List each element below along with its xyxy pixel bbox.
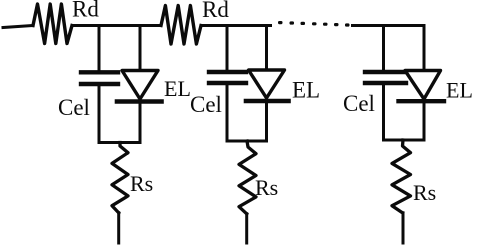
svg-text:EL: EL (164, 76, 191, 101)
svg-text:EL: EL (446, 78, 473, 103)
resistor Rd (stage 1 series resistor) (33, 4, 72, 44)
wire: stage-3 bottom terminal lead (402, 213, 405, 243)
wire: stage-3 capacitor branch upper lead (382, 26, 385, 71)
wire: stage-3 diode branch upper lead (423, 26, 426, 70)
resistor Rs (stage 1) (112, 143, 128, 213)
wire: dotted continuation of top rail (278, 21, 350, 27)
wire: top rail of stage 3 (353, 24, 425, 27)
wire: stage-3 capacitor branch lower lead (382, 85, 385, 141)
resistor Rs (stage 3) (392, 140, 411, 213)
wire: stage-2 diode branch upper lead (265, 26, 268, 69)
wire: stage-2 diode branch lower lead (265, 103, 268, 142)
svg-text:Rs: Rs (413, 180, 436, 205)
wire: stage-3 diode branch lower lead (423, 103, 426, 140)
svg-text:Rs: Rs (255, 175, 278, 200)
wire: stage-1 bottom terminal lead (117, 213, 120, 243)
wire: stage-1 capacitor branch lower lead (98, 86, 101, 143)
resistor Rs (stage 2) (239, 141, 256, 214)
svg-text:Rd: Rd (202, 0, 229, 22)
diode EL (stage 3 electroluminescent element) (399, 71, 445, 102)
wire: stage-2 capacitor branch upper lead (226, 26, 229, 71)
svg-text:Cel: Cel (58, 95, 90, 120)
wire: stage-1 bottom join (99, 141, 140, 144)
diode EL (stage 1 electroluminescent element) (117, 71, 162, 102)
diode EL (stage 2 electroluminescent element) (246, 70, 289, 101)
capacitor Cel (stage 2) (209, 72, 246, 83)
svg-text:Cel: Cel (343, 91, 375, 116)
capacitor Cel (stage 1) (81, 72, 118, 84)
wire: top rail from Rd1 to Rd2 (72, 24, 161, 27)
wire: top rail from Rd2 past stage-2 branches (201, 24, 271, 27)
svg-text:EL: EL (292, 78, 320, 103)
svg-text:Rs: Rs (130, 171, 153, 196)
wire: stage-2 bottom terminal lead (245, 214, 248, 243)
wire: stage-1 diode branch lower lead (139, 103, 142, 143)
wire: stage-3 bottom join (384, 139, 425, 142)
resistor Rd (stage 2 series resistor) (161, 6, 201, 45)
wire: stage-2 capacitor branch lower lead (226, 85, 229, 142)
svg-text:Rd: Rd (72, 0, 99, 22)
capacitor Cel (stage 3) (365, 72, 406, 83)
wire: stage-2 bottom join (227, 140, 267, 143)
wire: input lead from left edge (3, 26, 33, 28)
wire: stage-1 capacitor branch upper lead (98, 26, 101, 71)
svg-text:Cel: Cel (190, 92, 222, 117)
wire: stage-1 diode branch upper lead (139, 26, 142, 70)
